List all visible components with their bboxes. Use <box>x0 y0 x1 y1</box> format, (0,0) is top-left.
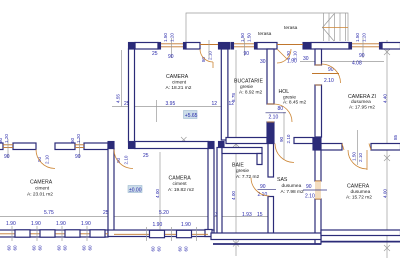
svg-text:A: 8.45 m2: A: 8.45 m2 <box>283 100 307 106</box>
wall bucatarie/hol upper <box>267 49 274 104</box>
room label camera 23.01 <box>27 180 53 198</box>
left top wall window LW2 <box>70 134 84 160</box>
svg-text:CAMERA: CAMERA <box>30 180 53 186</box>
window W2 bucatarie terasa <box>231 33 257 57</box>
svg-text:1.90: 1.90 <box>56 221 66 227</box>
double wall camera/bucatarie <box>221 49 228 140</box>
baie top wall stub down <box>257 154 262 165</box>
svg-text:60: 60 <box>82 245 87 251</box>
junction post sas right <box>313 138 321 151</box>
top wall between windows <box>186 43 200 50</box>
camera 23.01 / 19.82 divider wall <box>108 142 114 232</box>
svg-text:A: 7.72 m2: A: 7.72 m2 <box>236 174 260 180</box>
svg-text:60: 60 <box>57 245 62 251</box>
svg-text:1.20: 1.20 <box>4 134 9 143</box>
door hol/camera zi <box>312 64 341 85</box>
svg-text:90: 90 <box>279 136 284 142</box>
dimension line horizontal y216 bottom <box>0 210 270 218</box>
svg-text:gresie: gresie <box>283 94 296 100</box>
room label camera zi <box>348 94 376 111</box>
svg-text:2.10: 2.10 <box>305 194 315 200</box>
svg-text:CAMERA: CAMERA <box>166 74 189 80</box>
middle wall center with posts <box>129 142 225 149</box>
svg-text:2.10: 2.10 <box>358 153 363 162</box>
bottom outer contour line <box>213 243 321 245</box>
svg-text:1.90: 1.90 <box>287 59 297 65</box>
svg-text:HOL: HOL <box>279 89 290 95</box>
svg-text:4.55: 4.55 <box>116 94 121 103</box>
svg-text:1.20: 1.20 <box>76 134 81 143</box>
svg-text:60: 60 <box>70 137 75 143</box>
top wall post hol right <box>303 43 311 50</box>
svg-text:A: 23.01 m2: A: 23.01 m2 <box>27 192 53 198</box>
room label camera 19.82 <box>168 176 194 194</box>
svg-text:2.10: 2.10 <box>208 51 213 60</box>
svg-text:gresie: gresie <box>236 168 249 174</box>
room label baie <box>232 163 260 180</box>
svg-text:4.40: 4.40 <box>383 94 388 103</box>
svg-text:A: 8.92 m2: A: 8.92 m2 <box>239 90 263 96</box>
svg-text:2.10: 2.10 <box>124 155 129 164</box>
svg-text:4.00: 4.00 <box>155 189 160 198</box>
dimension line vertical x195 in camera 19.82 <box>155 152 160 230</box>
baie top wall <box>222 148 262 154</box>
svg-text:85: 85 <box>393 134 398 140</box>
door camera zi/camera 15.72 <box>342 130 371 170</box>
middle wall far left <box>0 143 3 150</box>
middle wall segment b <box>55 143 75 150</box>
sas top post <box>267 122 274 144</box>
baie left wall <box>217 148 222 236</box>
svg-text:CAMERA: CAMERA <box>347 184 370 190</box>
top wall right segment <box>382 43 400 50</box>
door baie/sas <box>251 178 276 198</box>
dimension line vertical x124 <box>116 50 122 107</box>
left wall upper band <box>129 49 135 142</box>
svg-text:1.50: 1.50 <box>240 33 245 42</box>
hol bottom wall right <box>294 138 313 144</box>
dimension line horizontal y61 top right <box>300 56 384 67</box>
svg-text:A: 7.98 m2: A: 7.98 m2 <box>281 189 305 195</box>
left top wall window LW1 <box>0 134 13 160</box>
svg-text:BAIE: BAIE <box>232 163 244 169</box>
svg-text:1.50: 1.50 <box>163 33 168 42</box>
bottom wall baie sas <box>211 233 321 240</box>
svg-text:5.20: 5.20 <box>159 210 169 216</box>
bottom windows camera 19.82 <box>114 222 208 252</box>
sas right wall upper <box>315 150 321 181</box>
svg-text:dusumea: dusumea <box>351 99 371 105</box>
top wall corner post bucatarie <box>219 43 230 50</box>
svg-text:60: 60 <box>13 245 18 251</box>
svg-text:25: 25 <box>152 51 158 57</box>
dimension line vertical x284 hol <box>283 112 285 160</box>
svg-text:CAMERA: CAMERA <box>169 176 192 182</box>
svg-text:A: 18.21 m2: A: 18.21 m2 <box>166 85 192 91</box>
level marker 0.00 <box>128 186 142 194</box>
top wall segment hol left <box>257 43 277 50</box>
svg-text:dusumea: dusumea <box>282 183 302 189</box>
svg-text:2.10: 2.10 <box>269 114 279 120</box>
svg-text:gresie: gresie <box>240 84 253 90</box>
svg-text:12: 12 <box>212 101 218 107</box>
svg-text:60: 60 <box>0 137 3 143</box>
svg-text:2.10: 2.10 <box>286 134 291 143</box>
svg-text:1.20: 1.20 <box>362 33 367 42</box>
svg-text:terasa: terasa <box>258 31 272 37</box>
svg-text:30: 30 <box>260 59 266 65</box>
door camera 23.01 <box>36 150 55 169</box>
door camera 19.82 <box>114 150 149 169</box>
svg-text:CAMERA ZI: CAMERA ZI <box>348 94 376 100</box>
svg-text:4.08: 4.08 <box>352 61 362 67</box>
door hol/sas <box>275 134 294 162</box>
parapet dims 60 60 row <box>7 245 93 251</box>
top wall left segment <box>129 43 159 50</box>
svg-text:30: 30 <box>303 56 309 62</box>
middle wall segment a <box>13 143 36 150</box>
wall hol/camera zi stub <box>315 49 322 65</box>
svg-text:60: 60 <box>151 246 156 252</box>
svg-text:15: 15 <box>257 212 263 218</box>
svg-text:ciment: ciment <box>35 186 50 192</box>
camera 19.82 right wall <box>208 149 214 231</box>
svg-text:1.90: 1.90 <box>81 221 91 227</box>
svg-text:90: 90 <box>359 53 365 59</box>
svg-text:4.00: 4.00 <box>383 189 388 198</box>
svg-text:1.90: 1.90 <box>181 222 191 228</box>
svg-text:3.95: 3.95 <box>166 101 176 107</box>
svg-text:2.10: 2.10 <box>324 78 334 84</box>
svg-text:1.90: 1.90 <box>153 222 163 228</box>
room label camera 18.21 <box>166 74 192 91</box>
svg-text:12: 12 <box>229 101 235 107</box>
staircase treads <box>322 13 348 41</box>
dimension line vertical x236 <box>231 50 239 256</box>
top wall camera zi <box>311 43 349 50</box>
terrace outline <box>186 13 348 42</box>
svg-text:90: 90 <box>4 154 10 160</box>
camera zi bottom wall left <box>321 144 342 151</box>
svg-text:1.50: 1.50 <box>355 33 360 42</box>
baie/sas wall lower <box>268 197 274 237</box>
room label hol <box>279 89 307 106</box>
svg-text:60: 60 <box>88 245 93 251</box>
svg-text:1.90: 1.90 <box>6 221 16 227</box>
svg-text:60: 60 <box>178 246 183 252</box>
door D1 80 terasa/camera <box>200 40 218 68</box>
svg-text:1.93: 1.93 <box>242 212 252 218</box>
svg-text:60: 60 <box>157 246 162 252</box>
dimension line vertical x215 <box>231 93 236 102</box>
svg-text:4.00: 4.00 <box>231 191 236 200</box>
svg-text:A: 17.95 m2: A: 17.95 m2 <box>349 105 375 111</box>
svg-text:60: 60 <box>7 245 12 251</box>
svg-text:ciment: ciment <box>173 181 188 187</box>
svg-text:60: 60 <box>38 245 43 251</box>
baie/sas wall upper <box>268 144 274 178</box>
bucatarie bottom wall <box>226 138 267 144</box>
svg-text:90: 90 <box>306 184 312 190</box>
bottom wall camera 15.72 <box>321 230 400 236</box>
dimension 12 12 wall thickness <box>212 101 235 107</box>
window W3 camera zi top <box>349 33 382 59</box>
svg-text:1.90: 1.90 <box>31 221 41 227</box>
window W1 top camera 18.21 <box>152 33 186 60</box>
svg-text:A: 19.82 m2: A: 19.82 m2 <box>168 187 194 193</box>
svg-text:25: 25 <box>143 153 149 159</box>
room label bucatarie <box>234 79 263 96</box>
sas right wall lower <box>315 199 321 244</box>
svg-text:1.50: 1.50 <box>247 33 252 42</box>
dimension line horizontal y112 camera 18.21 <box>112 100 221 122</box>
level marker +5.65 <box>184 111 198 119</box>
svg-text:1.20: 1.20 <box>170 33 175 42</box>
svg-text:80: 80 <box>278 106 284 112</box>
svg-text:5.75: 5.75 <box>44 210 54 216</box>
svg-text:±0.00: ±0.00 <box>129 187 142 193</box>
svg-text:ciment: ciment <box>172 80 187 86</box>
svg-text:60: 60 <box>184 246 189 252</box>
svg-text:60: 60 <box>63 245 68 251</box>
bottom wall camera 23.01 <box>0 230 108 237</box>
svg-text:BUCATARIE: BUCATARIE <box>234 79 263 85</box>
svg-text:+5.65: +5.65 <box>185 113 198 119</box>
camera zi bottom wall right <box>371 144 400 151</box>
door bucatarie/hol <box>266 104 293 122</box>
room label sas <box>277 177 304 195</box>
bottom post white <box>205 230 212 237</box>
bottom wall camera 19.82 <box>108 230 214 237</box>
svg-text:terasa: terasa <box>284 25 298 31</box>
svg-text:dusumea: dusumea <box>351 189 371 195</box>
svg-text:A: 15.72 m2: A: 15.72 m2 <box>346 195 372 201</box>
bottom windows camera 23.01 <box>0 221 108 241</box>
dimension line vertical x387 right <box>383 40 391 258</box>
door D2 terasa/hol <box>260 45 303 66</box>
svg-text:90: 90 <box>75 154 81 160</box>
middle wall segment c <box>84 143 108 150</box>
svg-text:1.50: 1.50 <box>351 152 356 161</box>
room label camera 15.72 <box>346 184 372 201</box>
svg-text:2.10: 2.10 <box>45 155 50 164</box>
svg-text:60: 60 <box>32 245 37 251</box>
svg-text:SAS: SAS <box>277 177 288 183</box>
svg-text:90: 90 <box>244 51 250 57</box>
svg-text:90: 90 <box>168 54 174 60</box>
wall hol/camera zi lower <box>315 85 322 137</box>
door sas/camera 15.72 <box>303 181 327 200</box>
